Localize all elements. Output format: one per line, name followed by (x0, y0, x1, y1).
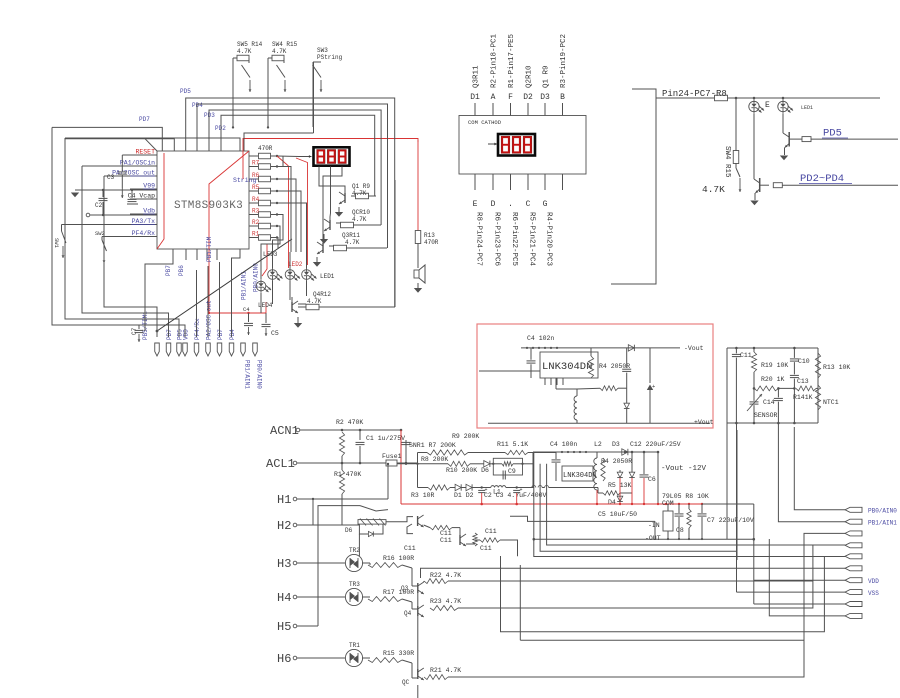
svg-text:R3: R3 (252, 208, 260, 215)
svg-text:.: . (508, 200, 513, 209)
svg-text:C4 102n: C4 102n (527, 335, 554, 342)
svg-text:R8 200K: R8 200K (421, 456, 448, 463)
svg-text:TR1: TR1 (349, 642, 360, 649)
svg-text:PB1/AIN1: PB1/AIN1 (241, 271, 248, 300)
svg-text:PB7: PB7 (165, 265, 172, 276)
svg-text:R1: R1 (252, 231, 260, 238)
svg-text:-OUT: -OUT (645, 535, 661, 542)
svg-text:ACN1: ACN1 (270, 424, 299, 438)
svg-text:LNK304DN: LNK304DN (563, 472, 597, 480)
svg-text:470R: 470R (258, 145, 273, 152)
svg-text:VSS: VSS (868, 590, 879, 597)
svg-text:-Vout -12V: -Vout -12V (661, 465, 707, 473)
svg-text:R5-Pin21-PC4: R5-Pin21-PC4 (528, 212, 536, 267)
svg-text:PA3/Tx: PA3/Tx (132, 218, 156, 225)
svg-text:Fuse1: Fuse1 (382, 453, 402, 460)
svg-text:H1: H1 (277, 493, 291, 507)
svg-text:D3: D3 (540, 93, 550, 102)
svg-text:C14: C14 (763, 399, 775, 406)
svg-text:SW4 R15: SW4 R15 (723, 146, 731, 178)
svg-text:H3: H3 (277, 557, 291, 571)
svg-text:A: A (491, 93, 496, 102)
svg-text:C10: C10 (798, 358, 810, 365)
svg-text:VDD: VDD (183, 329, 190, 340)
svg-text:R7: R7 (252, 160, 260, 167)
svg-text:R4 2050R: R4 2050R (601, 458, 632, 465)
svg-text:NTC1: NTC1 (823, 399, 839, 406)
svg-text:ACL1: ACL1 (266, 457, 295, 471)
svg-text:R20 1K: R20 1K (761, 376, 785, 383)
svg-text:B: B (560, 93, 565, 102)
svg-text:D2: D2 (523, 93, 533, 102)
svg-text:Q1 R9: Q1 R9 (352, 183, 370, 190)
svg-text:SW2: SW2 (95, 230, 105, 237)
svg-text:QCR10: QCR10 (352, 209, 370, 216)
svg-text:R16 100R: R16 100R (383, 555, 414, 562)
svg-text:R5: R5 (252, 184, 260, 191)
svg-text:R1-Pin17-PE5: R1-Pin17-PE5 (508, 33, 516, 88)
svg-text:Q4: Q4 (404, 610, 412, 617)
svg-text:R23 4.7K: R23 4.7K (430, 598, 461, 605)
svg-text:F: F (508, 93, 513, 102)
svg-text:C4 100n: C4 100n (550, 441, 577, 448)
svg-text:D6: D6 (345, 527, 353, 534)
svg-text:R3 10R: R3 10R (411, 492, 435, 499)
svg-text:PB1/TIM: PB1/TIM (206, 236, 213, 262)
svg-text:D1 D2: D1 D2 (454, 492, 474, 499)
svg-text:Q1 R9: Q1 R9 (543, 65, 551, 88)
svg-text:R141K: R141K (793, 394, 813, 401)
svg-text:R8-Pin24-PC7: R8-Pin24-PC7 (475, 212, 483, 266)
svg-text:4.7K: 4.7K (345, 239, 360, 246)
svg-text:STM8S903K3: STM8S903K3 (174, 200, 243, 212)
svg-text:R17 100R: R17 100R (383, 589, 414, 596)
svg-text:-IN: -IN (648, 522, 660, 529)
svg-text:R11 5.1K: R11 5.1K (497, 441, 528, 448)
svg-text:R2: R2 (252, 219, 260, 226)
svg-text:C11: C11 (440, 537, 452, 544)
svg-text:SW3: SW3 (317, 47, 328, 54)
svg-text:C5 10uF/50: C5 10uF/50 (598, 511, 637, 518)
svg-text:Q4R12: Q4R12 (313, 291, 331, 298)
svg-text:C3: C3 (107, 174, 115, 181)
svg-text:C7 220uF/10V: C7 220uF/10V (707, 517, 754, 524)
svg-text:C4: C4 (243, 306, 250, 313)
svg-text:H2: H2 (277, 519, 291, 533)
svg-text:TR3: TR3 (349, 581, 360, 588)
svg-text:E: E (765, 101, 770, 110)
svg-text:R4-Pin20-PC3: R4-Pin20-PC3 (545, 212, 553, 267)
svg-text:+Vout: +Vout (694, 419, 714, 426)
svg-text:L2: L2 (594, 441, 602, 448)
svg-text:R2-Pin18-PC1: R2-Pin18-PC1 (491, 33, 499, 88)
svg-text:R22 4.7K: R22 4.7K (430, 572, 461, 579)
svg-text:COM CATHOD: COM CATHOD (468, 119, 502, 126)
svg-text:PB1/AIN1: PB1/AIN1 (244, 360, 251, 389)
svg-text:R4: R4 (252, 196, 260, 203)
svg-text:PString: PString (317, 54, 343, 61)
svg-text:R9 200K: R9 200K (452, 433, 479, 440)
svg-text:LED1: LED1 (801, 105, 813, 111)
svg-text:C2: C2 (95, 202, 103, 209)
svg-text:PB7: PB7 (217, 329, 224, 340)
svg-text:H4: H4 (277, 591, 291, 605)
svg-text:C11: C11 (404, 545, 416, 552)
svg-text:R3-Pin19-PC2: R3-Pin19-PC2 (560, 34, 568, 88)
svg-text:4.7K: 4.7K (272, 48, 287, 55)
svg-text:C11: C11 (485, 528, 497, 535)
svg-text:R19 10K: R19 10K (761, 362, 788, 369)
svg-text:PA1/OSCin: PA1/OSCin (120, 160, 155, 167)
svg-text:+: + (520, 487, 523, 493)
svg-text:PA/2OSC out: PA/2OSC out (112, 170, 155, 177)
svg-text:R2 470K: R2 470K (336, 419, 363, 426)
svg-text:PB0/AIN0: PB0/AIN0 (868, 508, 897, 515)
svg-text:R13 10K: R13 10K (823, 364, 850, 371)
svg-text:SW4 R15: SW4 R15 (272, 41, 298, 48)
svg-text:C: C (526, 200, 531, 209)
svg-text:Vdb: Vdb (143, 208, 155, 215)
svg-text:4.7K: 4.7K (702, 184, 725, 195)
svg-text:PB0/AIN0: PB0/AIN0 (256, 360, 263, 389)
svg-text:D4: D4 (608, 499, 616, 506)
svg-text:79L05 R8 10K: 79L05 R8 10K (662, 493, 709, 500)
svg-text:PB4: PB4 (229, 329, 236, 340)
svg-text:C7: C7 (131, 327, 138, 335)
svg-text:+: + (652, 383, 655, 390)
svg-text:G: G (543, 200, 548, 209)
svg-text:R10 200K D6: R10 200K D6 (446, 467, 489, 474)
svg-text:LNK304DN: LNK304DN (542, 361, 592, 373)
svg-text:C5: C5 (271, 330, 279, 337)
svg-text:LED1: LED1 (320, 273, 335, 280)
svg-text:VDD: VDD (868, 578, 879, 585)
svg-text:R6-Pin23-PC6: R6-Pin23-PC6 (493, 212, 501, 267)
svg-text:4.7K: 4.7K (352, 216, 367, 223)
svg-text:-Vout: -Vout (684, 345, 704, 352)
svg-text:E: E (473, 200, 478, 209)
svg-text:C8: C8 (676, 527, 684, 534)
svg-text:C11: C11 (440, 530, 452, 537)
svg-text:C1 1u/275V: C1 1u/275V (366, 435, 405, 442)
svg-text:SNR1 R7 200K: SNR1 R7 200K (409, 442, 456, 449)
svg-text:Q3R11: Q3R11 (473, 65, 481, 88)
svg-text:D3: D3 (612, 441, 620, 448)
svg-text:V99: V99 (143, 183, 155, 190)
svg-text:D: D (491, 200, 496, 209)
svg-text:Q3R11: Q3R11 (342, 232, 360, 239)
svg-text:LED4: LED4 (258, 302, 273, 309)
svg-text:PD7: PD7 (139, 116, 150, 123)
svg-text:H5: H5 (277, 620, 291, 634)
svg-text:Q2R10: Q2R10 (526, 65, 534, 88)
svg-text:R1 470K: R1 470K (334, 471, 361, 478)
svg-text:C11: C11 (740, 352, 752, 359)
svg-text:R21 4.7K: R21 4.7K (430, 667, 461, 674)
svg-text:PB6: PB6 (178, 265, 185, 276)
svg-text:String: String (233, 177, 257, 184)
svg-text:C12 220uF/25V: C12 220uF/25V (630, 441, 681, 448)
svg-text:PF4/Rx: PF4/Rx (194, 318, 201, 340)
svg-text:PF4/Rx: PF4/Rx (132, 230, 156, 237)
svg-text:PB1/AIN1: PB1/AIN1 (868, 520, 897, 527)
svg-text:PA2/OSC out: PA2/OSC out (206, 300, 213, 340)
svg-text:R6-Pin22-PC5: R6-Pin22-PC5 (510, 212, 518, 267)
svg-text:D1: D1 (470, 93, 480, 102)
svg-text:C9: C9 (508, 468, 516, 475)
svg-text:SW1: SW1 (53, 238, 60, 249)
svg-text:+: + (485, 487, 488, 493)
svg-text:PD3: PD3 (204, 112, 215, 119)
svg-text:R15 330R: R15 330R (383, 650, 414, 657)
svg-text:SW5 R14: SW5 R14 (237, 41, 263, 48)
svg-text:RESET: RESET (135, 149, 155, 156)
svg-text:PD7: PD7 (166, 329, 173, 340)
svg-text:R13: R13 (424, 232, 435, 239)
svg-text:470R: 470R (424, 239, 439, 246)
svg-text:H6: H6 (277, 652, 291, 666)
svg-text:C11: C11 (480, 545, 492, 552)
svg-text:TR2: TR2 (349, 547, 360, 554)
svg-text:PD4: PD4 (192, 102, 203, 109)
svg-text:4.7K: 4.7K (237, 48, 252, 55)
svg-text:C6: C6 (648, 476, 656, 483)
svg-text:QC: QC (402, 679, 410, 686)
svg-text:C13: C13 (797, 378, 809, 385)
svg-text:SENSOR: SENSOR (754, 412, 778, 419)
svg-text:PD5: PD5 (180, 88, 191, 95)
